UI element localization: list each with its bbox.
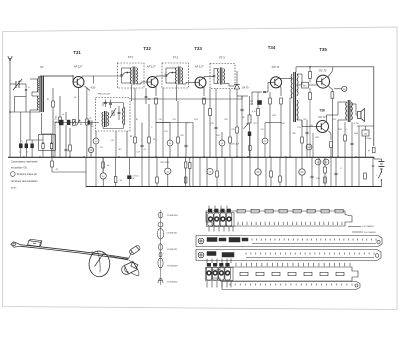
svg-text:1μF: 1μF bbox=[250, 103, 253, 105]
wire T31 base down bbox=[72, 76, 74, 82]
wire meter link bbox=[334, 88, 342, 90]
wire voltage T34 bbox=[264, 123, 266, 139]
drop from collector line bbox=[92, 76, 94, 84]
sketch right top cylinder bbox=[131, 246, 140, 254]
svg-text:R9: R9 bbox=[153, 139, 155, 141]
parts column fork bbox=[158, 279, 163, 283]
svg-text:R25: R25 bbox=[338, 129, 341, 131]
wire under coil corner bbox=[41, 113, 43, 134]
svg-text:R1: R1 bbox=[47, 99, 49, 101]
svg-text:AF 117: AF 117 bbox=[73, 65, 83, 69]
svg-text:en position GO: en position GO bbox=[11, 167, 27, 170]
svg-text:1k: 1k bbox=[62, 114, 64, 116]
svg-text:AF 117: AF 117 bbox=[194, 65, 204, 69]
gang trimmer a bbox=[42, 144, 44, 149]
cap C7 on y122 bbox=[89, 120, 91, 124]
resistor under pot bbox=[249, 146, 251, 151]
cap under pot dark bbox=[248, 132, 251, 137]
sketch loop to rod joins bbox=[92, 251, 94, 254]
neutralizing cap T32 bbox=[145, 95, 148, 97]
wire mid rail y122 b bbox=[156, 122, 193, 124]
resistor R20 bbox=[114, 177, 117, 183]
svg-text:Commutateur représenté: Commutateur représenté bbox=[11, 161, 38, 164]
meter circle T35 bbox=[342, 86, 347, 91]
T33 emitter resistor bbox=[203, 98, 206, 104]
wire T36 collector bbox=[326, 115, 328, 122]
svg-text:R25 470Ω: R25 470Ω bbox=[161, 162, 170, 164]
resistor R21 bbox=[156, 177, 159, 183]
IF transformer FT3 dashed box bbox=[210, 64, 235, 89]
resistor R2 bbox=[59, 117, 62, 123]
coupling cap C1 bbox=[25, 88, 27, 90]
svg-text:150: 150 bbox=[91, 126, 94, 128]
strip 1 top pin blobs bbox=[208, 209, 212, 213]
wire T32 base bias bbox=[146, 82, 148, 88]
FT3 secondary winding bbox=[224, 69, 225, 84]
FT2 tuning cap bbox=[165, 74, 168, 76]
strip 2 pivot right bbox=[377, 240, 380, 243]
svg-text:OC 72: OC 72 bbox=[319, 68, 327, 72]
strip 2 mid line bbox=[252, 243, 376, 245]
svg-text:C21: C21 bbox=[260, 129, 263, 131]
strip 4 contact cluster box bbox=[206, 268, 234, 281]
svg-text:AF 117: AF 117 bbox=[146, 65, 156, 69]
cap x216 mid bbox=[215, 126, 218, 128]
svg-text:C13: C13 bbox=[99, 147, 102, 149]
FT1 tuning cap bbox=[120, 74, 123, 76]
switch strip 1 outline bbox=[206, 211, 352, 226]
wire T35 emitter bbox=[329, 86, 333, 89]
wire drop x359 bbox=[358, 126, 360, 157]
bias resistor lower x310 bbox=[309, 93, 312, 100]
voltage circle T31 bbox=[93, 138, 99, 144]
diode D1 OA79 bbox=[234, 85, 240, 90]
resistor x302 mid bbox=[301, 137, 304, 143]
wire FT2 to T33 base bbox=[182, 83, 187, 85]
svg-text:T34: T34 bbox=[268, 45, 276, 50]
svg-text:50μF: 50μF bbox=[54, 121, 58, 123]
FT1 core bbox=[132, 67, 134, 85]
wire det to vol bbox=[237, 95, 248, 97]
strip 3 mid line bbox=[246, 257, 374, 259]
svg-text:100μF: 100μF bbox=[366, 138, 372, 140]
resistor under FT2 bbox=[177, 137, 180, 143]
wire T34 emitter join bbox=[265, 122, 281, 124]
cap under FT1 bbox=[141, 144, 144, 146]
osc trimmer bbox=[111, 110, 113, 116]
sketch rod left eyelet bbox=[11, 242, 20, 247]
wire drop x277 bbox=[276, 92, 278, 157]
resistor R near battery bbox=[373, 147, 376, 153]
svg-text:C6: C6 bbox=[74, 97, 76, 99]
resistor under FT1 bbox=[134, 137, 137, 143]
T35 emitter resistor bbox=[331, 92, 334, 99]
resistor right lower bbox=[185, 177, 187, 183]
T32 emitter resistor bbox=[155, 98, 158, 104]
switch S1 bbox=[380, 169, 382, 172]
strip 5 pivot bbox=[355, 284, 358, 287]
FT1 primary winding bbox=[130, 68, 131, 85]
svg-text:R13: R13 bbox=[194, 119, 197, 121]
strip 1 teeth bbox=[238, 222, 342, 225]
svg-text:4,7k: 4,7k bbox=[252, 111, 256, 113]
transistor T31 AF117 bbox=[73, 77, 84, 88]
cap C24 bbox=[311, 175, 314, 177]
right rail down bbox=[373, 67, 375, 147]
NTC wires bbox=[298, 84, 302, 86]
svg-text:0,1: 0,1 bbox=[144, 149, 147, 151]
svg-text:4k7: 4k7 bbox=[119, 149, 122, 151]
svg-text:17 806/141: 17 806/141 bbox=[167, 233, 179, 235]
transistor T33 AF117 bbox=[195, 77, 206, 88]
wire bus to battery bbox=[373, 157, 375, 159]
svg-text:4,5V: 4,5V bbox=[91, 87, 96, 90]
svg-text:C··: C·· bbox=[346, 129, 349, 131]
svg-text:C5: C5 bbox=[54, 119, 56, 121]
AGC joins bbox=[148, 98, 149, 99]
svg-text:FMC RO-08: FMC RO-08 bbox=[98, 94, 111, 96]
wire drop 207 bbox=[206, 157, 208, 187]
T34 emitter resistor bbox=[280, 98, 283, 104]
cap x242 det bbox=[241, 108, 244, 110]
top rail output loop bbox=[296, 66, 374, 68]
strip 3 pivot left bbox=[198, 252, 204, 258]
sketch clamp bbox=[28, 241, 41, 247]
cap 100uF bbox=[362, 130, 369, 136]
sketch clamp screw bbox=[33, 242, 36, 244]
vertical drop x30 bbox=[29, 112, 31, 140]
svg-text:T32: T32 bbox=[143, 46, 151, 51]
wire vol to T34 base bbox=[251, 92, 253, 105]
wire FT1 secondary to T32 base bbox=[136, 83, 141, 85]
svg-text:R14: R14 bbox=[216, 135, 219, 137]
AGC long feedback wire bbox=[131, 98, 242, 100]
strip 4 cluster pins bottom bbox=[206, 281, 208, 288]
svg-text:C16: C16 bbox=[172, 119, 175, 121]
resistor on left bus link bbox=[102, 162, 105, 168]
strip 2 contacts dark bbox=[207, 238, 217, 242]
strip 3 ticks bbox=[246, 253, 374, 255]
wire speaker bbox=[351, 103, 356, 105]
wire T33 collector to FT3 bbox=[203, 77, 205, 79]
electrolytic under osc bbox=[88, 147, 93, 152]
wire voltage T33 bbox=[221, 132, 223, 140]
parts column circle bbox=[158, 222, 163, 227]
cap x352 mid bbox=[351, 142, 354, 144]
wire T36 emitter bbox=[329, 131, 332, 134]
parts column big oval 1 bbox=[157, 229, 163, 239]
svg-text:R23: R23 bbox=[315, 137, 318, 139]
resistor R1 bbox=[52, 101, 55, 107]
osc coil windings bbox=[102, 112, 103, 126]
resistor R22 bbox=[216, 171, 219, 177]
dark comp second bbox=[67, 120, 71, 125]
gang trimmer b bbox=[50, 144, 52, 149]
strip 1 slots bbox=[237, 209, 245, 213]
IF transformer FT1 dashed box bbox=[118, 63, 145, 88]
transistor T36 OC72 bbox=[317, 121, 329, 133]
svg-text:C9: C9 bbox=[89, 118, 91, 120]
wire lower bus left end down bbox=[85, 157, 87, 187]
svg-text:C19: C19 bbox=[210, 123, 213, 125]
svg-text:et à t: et à t bbox=[11, 186, 17, 189]
wire y122 drop at 55 bbox=[54, 123, 56, 158]
svg-text:R17: R17 bbox=[253, 123, 256, 125]
voltage circle T32 bbox=[167, 140, 173, 146]
wire FT1 bottom down bbox=[130, 85, 132, 102]
sketch loop inner wire bbox=[95, 254, 104, 267]
voltage circle T34 bbox=[262, 138, 268, 144]
svg-text:R20: R20 bbox=[292, 133, 295, 135]
wire drop x193 bbox=[192, 123, 194, 158]
svg-text:OA 79: OA 79 bbox=[242, 87, 249, 90]
svg-text:C18 0,1μF: C18 0,1μF bbox=[231, 144, 240, 146]
wire osc right down bbox=[126, 131, 128, 157]
vertical drop x66 bbox=[65, 112, 67, 120]
resistor x258 mid bbox=[257, 109, 260, 116]
wire T31 collector to FT1 bbox=[81, 76, 83, 78]
tuning capacitor CV1 bbox=[15, 81, 17, 88]
ferrite antenna coil L1 bbox=[39, 76, 41, 112]
dark cap C17 bbox=[257, 100, 262, 105]
FT2 junction dot bbox=[172, 72, 174, 74]
svg-text:R21: R21 bbox=[303, 119, 306, 121]
sketch cylinder tail bbox=[131, 273, 139, 276]
svg-text:17 806/139: 17 806/139 bbox=[167, 215, 179, 217]
wire FT3 secondary out bbox=[224, 83, 230, 85]
wire osc bottom to bus bbox=[115, 131, 117, 157]
svg-text:R12: R12 bbox=[180, 135, 183, 137]
FT2 primary winding bbox=[175, 68, 176, 85]
FT1 secondary winding bbox=[136, 68, 137, 85]
svg-text:OC 71: OC 71 bbox=[272, 65, 280, 69]
wire voltage T32 bbox=[169, 123, 171, 141]
svg-text:R7: R7 bbox=[136, 119, 138, 121]
svg-text:CV1: CV1 bbox=[18, 81, 22, 83]
switch strip 4 outline bbox=[212, 267, 358, 281]
svg-text:R15: R15 bbox=[224, 119, 227, 121]
FT1 junction links bbox=[122, 73, 126, 77]
svg-text:R2: R2 bbox=[55, 117, 57, 119]
wire left inner loop bbox=[13, 97, 15, 113]
strip 5 bar bbox=[222, 282, 360, 290]
wire coil tap to base network bbox=[32, 91, 39, 93]
cap C27 dark bbox=[127, 175, 131, 179]
wire T31 emitter down bbox=[86, 88, 88, 120]
wire T32 emitter join bbox=[156, 122, 170, 124]
wire drop x313 bbox=[312, 133, 314, 157]
electrolytic dark on y122 bbox=[59, 120, 64, 125]
svg-text:17 806/199: 17 806/199 bbox=[167, 266, 179, 268]
volume pot bbox=[248, 115, 251, 123]
sketch right big cylinder bbox=[124, 262, 137, 274]
strip 4 slots bbox=[240, 272, 248, 275]
antenna bbox=[8, 56, 10, 61]
wire drv sec top to T35 base bbox=[297, 73, 302, 75]
coupling cap C to T34 bbox=[263, 90, 266, 92]
voltage circle pair b bbox=[323, 159, 329, 165]
resistor R24 bbox=[279, 176, 282, 182]
sketch rod lower line bbox=[20, 246, 128, 260]
FT2 core bbox=[177, 67, 179, 85]
svg-text:l'émetteur des transistors: l'émetteur des transistors bbox=[11, 180, 38, 183]
svg-text:C17: C17 bbox=[136, 152, 139, 154]
parts column big oval 2 bbox=[158, 258, 163, 268]
osc winding 2 bbox=[124, 107, 126, 125]
voltage circle below bus b bbox=[165, 168, 171, 174]
emitter arrow T31 bbox=[85, 86, 91, 91]
transistor T35 OC72 bbox=[317, 75, 330, 88]
marks near x90 y122 bbox=[88, 121, 90, 125]
voltage circle below bus a bbox=[100, 173, 106, 179]
svg-text:T35: T35 bbox=[319, 47, 327, 52]
inter-bus drops bbox=[95, 157, 97, 187]
svg-text:T33: T33 bbox=[194, 46, 202, 51]
resistor x210 mid bbox=[209, 109, 212, 116]
battery 9V bbox=[378, 161, 384, 163]
wire drop 242 bbox=[241, 157, 243, 187]
svg-text:C20: C20 bbox=[231, 129, 234, 131]
svg-text:4 GO 806/84: 4 GO 806/84 bbox=[364, 232, 376, 234]
resistor R26 bbox=[324, 167, 327, 173]
strip 3 contacts dark bbox=[207, 252, 216, 256]
wire FT2 bottom down bbox=[176, 85, 178, 102]
wire T34 emitter down bbox=[279, 86, 281, 88]
wire right rail to cap bbox=[373, 126, 375, 146]
svg-text:FT1: FT1 bbox=[128, 55, 133, 59]
cap x307 mid bbox=[306, 131, 309, 133]
cap C4 bbox=[30, 144, 33, 149]
osc internal wires bbox=[102, 103, 104, 107]
cap C29 bbox=[335, 172, 338, 174]
resistor x230 bbox=[229, 137, 232, 143]
resistor T32 bias bbox=[148, 137, 151, 143]
parts column bead 2 bbox=[159, 253, 162, 257]
oscillator coil box dashed bbox=[96, 98, 131, 132]
strip 4 top pin blobs bbox=[207, 263, 211, 266]
T34 bias resistor bbox=[269, 98, 272, 104]
strip 1 cluster pins above bbox=[208, 206, 210, 209]
AGC wire bbox=[236, 71, 238, 78]
wire drop x163 bbox=[162, 88, 164, 157]
parts column axis wire bbox=[160, 210, 162, 285]
FT3 core bbox=[219, 68, 221, 85]
NTC box bbox=[302, 82, 309, 88]
svg-text:R18: R18 bbox=[272, 115, 275, 117]
svg-text:K1: K1 bbox=[40, 65, 44, 69]
svg-text:R11: R11 bbox=[164, 131, 167, 133]
wire drv sec bottom to T36 base bbox=[297, 119, 302, 121]
electrolytic C25 bbox=[299, 169, 305, 175]
wire drv drop x287 bbox=[286, 98, 288, 157]
resistor left notes area bbox=[51, 161, 54, 167]
bus wire lower (battery minus) bbox=[86, 186, 381, 188]
strip 1 contact cluster bbox=[208, 213, 213, 226]
wire antenna to tuning bbox=[10, 83, 16, 85]
svg-text:4,7Ω: 4,7Ω bbox=[354, 123, 359, 125]
wire T31 collector branch down bbox=[78, 88, 80, 123]
svg-text:T31: T31 bbox=[73, 50, 81, 55]
driver transformer bbox=[293, 72, 295, 122]
resistor x237 low bbox=[236, 127, 239, 133]
sketch rod upper line bbox=[20, 245, 129, 259]
hatched res third bbox=[72, 120, 75, 126]
svg-text:1 GO 806/84: 1 GO 806/84 bbox=[362, 226, 374, 228]
resistor R27 bbox=[324, 177, 327, 183]
svg-text:C23: C23 bbox=[297, 127, 300, 129]
voltage circle T33 bbox=[219, 140, 225, 146]
wire T33 emitter down bbox=[203, 87, 205, 96]
wire coil bottom bbox=[30, 109, 39, 111]
bypass components row bbox=[69, 145, 72, 151]
strip 5 ticks bbox=[230, 284, 352, 286]
svg-text:OC 72: OC 72 bbox=[318, 116, 326, 119]
sketch right lower knob bbox=[131, 262, 138, 268]
emitter resistor R3 bbox=[86, 119, 89, 125]
strip 3 pivot right bbox=[375, 254, 379, 258]
osc coil core bbox=[104, 111, 106, 127]
svg-text:C15: C15 bbox=[158, 119, 161, 121]
diode arrow on y122 bbox=[77, 120, 81, 125]
svg-text:17 806/197: 17 806/197 bbox=[167, 249, 179, 251]
node junction antenna bottom bbox=[9, 111, 11, 113]
electrolytic C23 bbox=[255, 169, 261, 175]
svg-text:C24: C24 bbox=[309, 125, 312, 127]
resistor x345 mid bbox=[344, 135, 347, 141]
svg-text:17 806/202: 17 806/202 bbox=[167, 282, 179, 284]
cap row under coil bbox=[65, 148, 68, 150]
wire T32 emitter down bbox=[155, 87, 157, 97]
sketch wire rod end down bbox=[129, 260, 133, 263]
parts column small oval bbox=[159, 244, 163, 250]
strip 2 pivot left bbox=[198, 238, 204, 244]
svg-text:R19: R19 bbox=[281, 123, 284, 125]
return wire bottom loop bbox=[199, 188, 201, 196]
FT1 junction dot bbox=[127, 72, 129, 74]
svg-text:T36: T36 bbox=[319, 109, 325, 113]
svg-text:FT.2: FT.2 bbox=[173, 55, 179, 59]
switch strip 2 outline bbox=[196, 236, 382, 247]
sketch wire rod to top cylinder bbox=[129, 252, 132, 259]
IF transformer FT2 dashed box bbox=[162, 63, 189, 88]
cap under FT2 bbox=[185, 144, 188, 146]
svg-text:R8: R8 bbox=[130, 136, 132, 138]
wire mid rail y122 bbox=[55, 122, 99, 124]
strip 2 ticks bbox=[252, 239, 376, 241]
transistor T32 AF117 bbox=[147, 77, 158, 88]
wire row link bbox=[26, 139, 43, 141]
resistor pair right b bbox=[189, 163, 191, 169]
FT3 primary winding bbox=[217, 69, 218, 84]
cap C3 bbox=[25, 144, 28, 149]
output transformer bbox=[347, 100, 349, 122]
svg-text:R3: R3 bbox=[80, 124, 82, 126]
voltage circle T36 bbox=[306, 144, 312, 150]
sketch rod tail after loop bbox=[110, 256, 129, 259]
voltage circle pair a bbox=[315, 159, 321, 165]
FT2 junction links bbox=[166, 73, 170, 77]
rail drop to driver bbox=[295, 67, 297, 72]
wire drv primary bottom bbox=[290, 97, 292, 99]
resistor pair right a bbox=[185, 162, 187, 168]
resistor R28 bbox=[364, 173, 367, 179]
svg-text:C14: C14 bbox=[110, 140, 113, 142]
speaker HP bbox=[358, 112, 361, 119]
FT2 secondary winding bbox=[182, 68, 183, 85]
transistor T34 OC71 bbox=[270, 77, 281, 88]
osc cap C8 bbox=[118, 111, 121, 113]
wire T34 collector right bbox=[279, 77, 281, 79]
